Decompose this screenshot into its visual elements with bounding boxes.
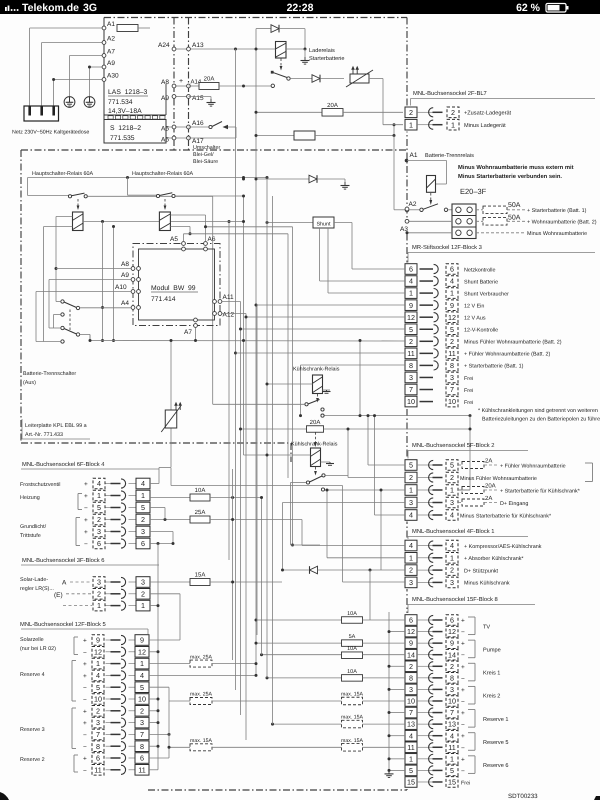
- svg-text:5: 5: [409, 325, 413, 334]
- connector Block2 cell 1: [405, 485, 417, 496]
- svg-text:10: 10: [448, 397, 456, 406]
- pin Block5-2: [106, 710, 112, 712]
- svg-text:13: 13: [448, 720, 456, 729]
- wire b4 row2 out: [210, 519, 302, 521]
- plug cell Block3-11: [446, 348, 458, 359]
- mains plug: [24, 106, 59, 121]
- switch KS1: [305, 403, 308, 406]
- junction d+ mid: [281, 569, 284, 572]
- svg-text:10: 10: [448, 697, 456, 706]
- wire b6 row3 out: [210, 581, 282, 583]
- svg-text:2: 2: [96, 706, 100, 715]
- svg-text:14: 14: [448, 650, 456, 659]
- terminal A14: [187, 84, 191, 88]
- wire x470 drop: [469, 416, 471, 490]
- connector Block8 cell 5: [405, 765, 417, 776]
- svg-text:14: 14: [407, 650, 415, 659]
- pin Block4-5: [106, 507, 112, 509]
- wire relay K1 right: [286, 48, 305, 50]
- plug cell Block3-12: [446, 312, 458, 323]
- svg-text:Minus Starterbatterie für Kühl: Minus Starterbatterie für Kühlschrank*: [460, 513, 552, 519]
- svg-text:Shunt Verbraucher: Shunt Verbraucher: [464, 291, 509, 297]
- svg-text:Minus Ladegerät: Minus Ladegerät: [464, 122, 506, 129]
- junction A6 mid: [204, 225, 207, 228]
- fuse 15A block6: [190, 579, 210, 586]
- junction x113 top: [112, 225, 115, 228]
- pin Block3-5: [420, 328, 434, 330]
- pin Block5-9: [106, 639, 112, 641]
- relay KS2: [311, 448, 321, 467]
- wire header H: [28, 177, 267, 179]
- junction K1: [304, 48, 307, 51]
- wire b3 row11: [236, 352, 406, 354]
- pin Block8-3: [417, 688, 433, 690]
- bracket Reserve2: [73, 755, 75, 772]
- terminal A2r: [405, 208, 409, 212]
- pin Block3-1: [420, 292, 434, 294]
- wire A8-A14: [174, 85, 189, 87]
- svg-text:5: 5: [96, 683, 100, 692]
- wire b5 row2: [149, 710, 158, 712]
- connector Block1 cell 3: [405, 577, 417, 588]
- junction b8f8: [266, 676, 269, 679]
- pin Block8-4: [417, 735, 433, 737]
- wire minus row12: [389, 631, 405, 633]
- separation line y150: [21, 149, 407, 151]
- bracket Heizung: [77, 494, 79, 510]
- pin Block8-10: [417, 700, 433, 702]
- svg-text:D+ Stützpunkt: D+ Stützpunkt: [464, 568, 499, 574]
- connector Block1 cell 4: [405, 540, 417, 551]
- svg-text:1: 1: [409, 754, 413, 763]
- connector Block3 cell 5: [405, 324, 417, 335]
- wire KS2 loop: [291, 482, 307, 484]
- svg-text:4: 4: [409, 511, 413, 520]
- svg-text:−: −: [83, 697, 87, 704]
- plug cell Block3-4: [446, 276, 458, 287]
- svg-text:Kreis 1: Kreis 1: [483, 670, 500, 677]
- junction b2r1 x381: [380, 489, 383, 492]
- svg-text:6: 6: [141, 539, 145, 548]
- svg-text:A6: A6: [161, 137, 169, 144]
- connector Block5 cell 2: [135, 706, 149, 717]
- svg-text:9: 9: [450, 639, 454, 648]
- svg-text:Batterie-Trennschalter: Batterie-Trennschalter: [23, 371, 76, 377]
- svg-text:Reserve 6: Reserve 6: [483, 763, 509, 769]
- svg-text:20A: 20A: [310, 419, 321, 426]
- svg-text:Batteriezuleitungen zu den Bat: Batteriezuleitungen zu den Batteriepolen…: [482, 417, 600, 423]
- plug cell Block3-1: [446, 288, 458, 299]
- svg-text:1: 1: [140, 659, 144, 668]
- wire Solar E: [66, 593, 92, 595]
- plug cell Block4-1: [93, 490, 105, 501]
- wire A7 loop: [70, 55, 105, 57]
- svg-text:Minus Starterbatterie verbunde: Minus Starterbatterie verbunden sein.: [458, 173, 562, 180]
- plug cell Block4-6: [93, 538, 105, 549]
- connector Block5 cell 12: [135, 647, 149, 658]
- junction b8f14: [260, 653, 263, 656]
- connector Block8 cell 10: [405, 696, 417, 707]
- junction row2 drop: [359, 339, 362, 342]
- svg-text:A4: A4: [121, 300, 129, 307]
- wire b3 row12: [246, 316, 405, 318]
- wire fuse to pin2: [343, 111, 405, 113]
- diode D4: [310, 566, 318, 574]
- ground below A15: [210, 99, 212, 103]
- pin Block3-3: [420, 376, 434, 378]
- svg-text:1: 1: [409, 553, 413, 562]
- svg-text:+: +: [461, 664, 465, 671]
- trunk x267: [266, 178, 268, 678]
- plug cell Block3-8: [446, 360, 458, 371]
- wire to fuse 20A-2: [256, 111, 322, 113]
- plug cell Block3-9: [446, 300, 458, 311]
- junction b5r8: [157, 745, 160, 748]
- wire b3 row4: [320, 280, 405, 282]
- pin Block5-12: [106, 651, 112, 653]
- plug cell Block8-1: [446, 754, 458, 765]
- svg-text:10: 10: [407, 697, 415, 706]
- ground KS1: [323, 389, 331, 391]
- connector Block8 cell 15: [405, 777, 417, 788]
- plug cell Block8-11: [446, 742, 458, 753]
- wire A4 left: [80, 307, 131, 309]
- terminal A9b: [172, 95, 176, 99]
- svg-text:(nur bei LR 02): (nur bei LR 02): [20, 646, 56, 652]
- svg-text:+: +: [179, 78, 183, 85]
- wire A30 loop: [54, 79, 104, 81]
- connector Block8 cell 4: [405, 730, 417, 741]
- switch S-E20: [409, 209, 420, 211]
- svg-text:Frostschutzventil: Frostschutzventil: [20, 482, 60, 488]
- svg-text:3: 3: [97, 578, 101, 587]
- svg-text:771.414: 771.414: [151, 296, 176, 303]
- svg-text:3: 3: [450, 578, 454, 587]
- connector BL7 cell 1: [405, 119, 417, 130]
- svg-text:11: 11: [448, 743, 455, 752]
- wire KS1 left: [267, 383, 313, 385]
- terminal A30: [102, 78, 106, 82]
- wire relay2 out2: [170, 226, 190, 228]
- mask Block1: [403, 539, 419, 589]
- svg-text:Shunt Batterie: Shunt Batterie: [464, 279, 498, 285]
- minus bus left: [157, 544, 159, 770]
- switch S1: [271, 71, 274, 74]
- junction b5r7: [168, 733, 171, 736]
- wire b4 row3: [150, 531, 173, 533]
- svg-text:6: 6: [409, 265, 413, 274]
- trunk x262: [261, 498, 263, 655]
- status bar: [0, 0, 600, 14]
- wire b1 row1: [327, 557, 405, 559]
- svg-text:12: 12: [407, 627, 415, 636]
- wire A2 left: [394, 209, 407, 211]
- wire A6 up: [205, 215, 207, 242]
- mask BL7: [403, 106, 419, 132]
- plug cell Block5-5: [92, 682, 104, 693]
- svg-text:A8: A8: [161, 79, 169, 86]
- pin Block5-11: [106, 769, 112, 771]
- underline Block1: [408, 536, 528, 538]
- svg-text:−: −: [461, 745, 465, 752]
- wire x113 drop: [113, 227, 115, 341]
- svg-text:12: 12: [94, 647, 102, 656]
- junction b8f6: [255, 619, 258, 622]
- box Shunt: [313, 217, 334, 228]
- pin Block6-3: [106, 581, 112, 583]
- wire shunt right: [334, 222, 352, 224]
- wire b1 row3: [343, 581, 406, 583]
- wire minus row3: [389, 688, 405, 690]
- pin Block8-13: [417, 723, 433, 725]
- wire relay1 out: [83, 221, 159, 223]
- pin Block8-9: [417, 642, 433, 644]
- svg-text:+: +: [84, 517, 88, 524]
- connector Block8 cell 11: [405, 742, 417, 753]
- svg-text:A7: A7: [107, 49, 115, 56]
- junction r1 A8: [55, 267, 58, 270]
- trunk x257: [256, 305, 258, 635]
- wire relay1 in2: [44, 226, 73, 228]
- junction relay2 pass: [242, 220, 245, 223]
- terminal A9m: [131, 278, 135, 282]
- wire varistor: [170, 341, 172, 411]
- junction b4r2a: [164, 518, 167, 521]
- svg-text:62 %: 62 %: [516, 2, 541, 14]
- svg-text:+: +: [84, 493, 88, 500]
- svg-text:+ Fühler Wohnraumbatterie (Bat: + Fühler Wohnraumbatterie (Batt. 2): [464, 352, 551, 358]
- pin Block4-4: [106, 483, 112, 485]
- plug cell Block3-7: [446, 384, 458, 395]
- svg-text:2: 2: [141, 589, 145, 598]
- svg-text:A9: A9: [161, 95, 169, 102]
- wire b1 row2: [283, 569, 309, 571]
- junction b4r1: [231, 496, 234, 499]
- plug cell Block8-8: [446, 673, 458, 684]
- svg-text:Frei: Frei: [464, 376, 473, 382]
- junction relay2 a5: [189, 232, 192, 235]
- svg-text:2: 2: [409, 662, 413, 671]
- svg-text:Pumpe: Pumpe: [483, 647, 501, 653]
- terminal A5s: [172, 125, 176, 129]
- wire TS A feed: [56, 301, 61, 303]
- bracket Reserve3: [71, 708, 73, 749]
- junction relay1 out: [101, 220, 104, 223]
- svg-text:3: 3: [409, 498, 413, 507]
- wire relay1 in1: [56, 216, 73, 218]
- connector Block5 cell 9: [135, 635, 149, 646]
- pin Block5-10: [106, 698, 112, 700]
- switch Hauptschalter1: [68, 195, 71, 198]
- junction minus row2: [388, 665, 391, 668]
- connector Block8 cell 6: [405, 615, 417, 626]
- svg-text:2: 2: [409, 337, 413, 346]
- bracket Reserve 1: [474, 710, 476, 728]
- wire minus row1: [389, 758, 405, 760]
- svg-text:3: 3: [409, 685, 413, 694]
- svg-text:2: 2: [141, 515, 145, 524]
- junction 20A out: [242, 85, 245, 88]
- pin Block8-8: [417, 677, 433, 679]
- pin Block8-12: [417, 631, 433, 633]
- wire A9 loop: [90, 66, 105, 68]
- wire TS B out: [80, 334, 90, 336]
- svg-text:+: +: [84, 481, 88, 488]
- link Trennrelais: [430, 193, 432, 201]
- EBL unit border bottom: [148, 789, 407, 791]
- wire Solar row1: [63, 605, 92, 607]
- wire b4 row6: [150, 543, 173, 545]
- svg-text:10: 10: [407, 397, 415, 406]
- plug cell Block3-5: [446, 324, 458, 335]
- svg-text:A2: A2: [409, 201, 417, 208]
- svg-text:1: 1: [141, 601, 145, 610]
- wire A10 left: [36, 291, 131, 293]
- svg-text:12: 12: [138, 647, 146, 656]
- link Trennschalter: [69, 310, 71, 333]
- wire b2 row2: [348, 477, 405, 479]
- terminal A7: [102, 54, 106, 58]
- wire switch1 feed: [28, 195, 69, 197]
- svg-text:15A: 15A: [195, 572, 206, 579]
- bracket Kreis 1: [474, 663, 476, 681]
- wire b6 row3 fuse: [150, 581, 190, 583]
- wire KS2 left: [244, 454, 311, 456]
- svg-text:3: 3: [409, 373, 413, 382]
- wire Solar A: [70, 581, 92, 583]
- junction varistor top: [170, 339, 173, 342]
- wire b4 row5: [150, 507, 165, 509]
- junction b5r6 x169: [168, 746, 171, 749]
- corner fold: [0, 792, 9, 800]
- pin Block8-2: [417, 665, 433, 667]
- fuse Block8 max15 row10: [342, 697, 363, 705]
- relay Laderelais: [276, 42, 287, 59]
- svg-text:3: 3: [96, 718, 100, 727]
- svg-text:(E): (E): [54, 592, 63, 599]
- junction x113 bot: [112, 339, 115, 342]
- fuse 50A-2: [476, 220, 483, 222]
- trunk x272: [272, 196, 274, 724]
- plug cell Block8-7: [446, 707, 458, 718]
- LAS module outline: [103, 18, 105, 144]
- terminal A8: [131, 267, 135, 271]
- wire 20A KS in: [241, 428, 307, 430]
- junction b2r4 top: [373, 414, 376, 417]
- plug cell Block5-1: [92, 658, 104, 669]
- svg-text:Frei: Frei: [464, 400, 473, 406]
- svg-text:Umschalter: Umschalter: [193, 145, 220, 151]
- svg-text:6: 6: [97, 539, 101, 548]
- pin Block5-1: [106, 663, 112, 665]
- svg-text:* Kühlschrankleitungen sind ge: * Kühlschrankleitungen sind getrennt von…: [478, 408, 598, 414]
- svg-text:+: +: [84, 529, 88, 536]
- junction t2: [255, 134, 258, 137]
- svg-text:11: 11: [138, 765, 145, 774]
- svg-text:10A: 10A: [347, 611, 357, 617]
- pin Block5-7: [106, 733, 112, 735]
- wire b5 row4: [149, 674, 256, 676]
- connector Block5 cell 4: [135, 670, 149, 681]
- svg-text:10A: 10A: [347, 646, 357, 652]
- terminal A4: [131, 306, 135, 310]
- svg-text:Modul BW 99: Modul BW 99: [151, 285, 196, 292]
- plug cell Block8-13: [446, 719, 458, 730]
- status bar battery icon: [546, 4, 569, 13]
- svg-text:+: +: [461, 687, 465, 694]
- terminal A10: [131, 290, 135, 294]
- terminal A8r: [172, 84, 176, 88]
- relay Hauptschalter1: [73, 212, 84, 231]
- wire shunt sense2: [327, 228, 329, 293]
- plug cell Block6-1: [93, 600, 105, 611]
- wire A3: [406, 230, 408, 233]
- wire b5 row9: [149, 639, 180, 641]
- terminal E20 row2: [405, 219, 409, 223]
- svg-text:A5: A5: [161, 126, 169, 133]
- wire KS1 sw feed: [213, 403, 305, 405]
- trunk x235: [235, 49, 237, 690]
- plug cell Block2-5: [446, 460, 458, 471]
- svg-text:MR-Stiftsockel 12F-Block 3: MR-Stiftsockel 12F-Block 3: [412, 244, 482, 251]
- wire A1r: [407, 160, 447, 162]
- svg-text:−: −: [461, 698, 465, 705]
- bracket Leiterplatte: [21, 419, 23, 439]
- svg-text:13: 13: [407, 720, 415, 729]
- svg-text:2: 2: [140, 706, 144, 715]
- wire b5 row5: [149, 686, 169, 688]
- pin Block2-4: [417, 514, 433, 516]
- svg-text:5: 5: [450, 461, 454, 470]
- junction b5r1 out: [255, 662, 258, 665]
- plug cell Block2-1: [446, 485, 458, 496]
- plug cell Block8-14: [446, 649, 458, 660]
- underline Block8: [408, 604, 535, 606]
- svg-text:A1: A1: [107, 21, 115, 28]
- svg-text:12: 12: [407, 313, 415, 322]
- svg-text:Frei: Frei: [464, 388, 473, 394]
- fuse Block2-3: [458, 502, 462, 504]
- svg-text:(Aus): (Aus): [23, 380, 36, 386]
- switch Hauptschalter2: [156, 194, 159, 197]
- junction b1r2: [369, 569, 372, 572]
- wire b2 row3: [283, 502, 406, 504]
- svg-text:4: 4: [409, 277, 413, 286]
- terminal A5: [182, 242, 186, 246]
- svg-text:3G: 3G: [83, 2, 97, 14]
- wire b4 row1 out: [210, 497, 262, 499]
- pin Block2-1: [417, 489, 433, 491]
- connector Block3 cell 9: [405, 300, 417, 311]
- svg-text:+: +: [83, 661, 87, 668]
- svg-text:12: 12: [448, 313, 456, 322]
- svg-text:A: A: [62, 580, 67, 587]
- svg-text:1: 1: [450, 553, 454, 562]
- svg-text:A10: A10: [115, 284, 127, 291]
- svg-text:S 1218–2: S 1218–2: [110, 125, 141, 132]
- svg-text:A13: A13: [192, 42, 204, 49]
- svg-text:1: 1: [97, 601, 101, 610]
- terminal A1: [102, 26, 106, 30]
- svg-text:4: 4: [450, 511, 454, 520]
- junction b5r10: [157, 698, 160, 701]
- bracket Kreis 2: [474, 686, 476, 704]
- svg-text:Frei: Frei: [461, 781, 470, 787]
- terminal A7m: [194, 324, 198, 328]
- svg-text:A12: A12: [223, 312, 235, 319]
- svg-text:Reserve 5: Reserve 5: [483, 740, 509, 746]
- wire b2 row1: [458, 489, 470, 491]
